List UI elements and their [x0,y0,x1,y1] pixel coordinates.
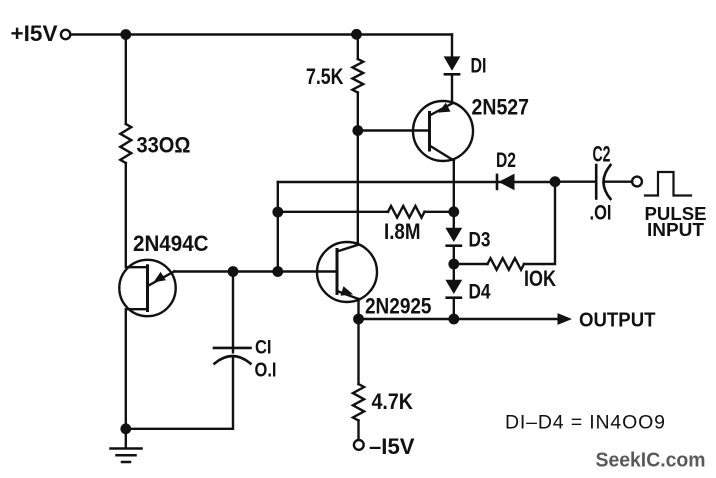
wire 2N527 emitter to D1 [451,76,453,103]
wire left vertical below 2N494C base1 [126,309,147,447]
capacitor C1 plates [214,347,251,350]
resistor 4.7K [353,384,364,421]
wire node B left vertical [277,182,279,272]
transistor 2N527 (PNP) body [413,101,473,161]
junction 7.5K / 2N527 base [352,125,363,136]
wire 4.7K to -15V terminal [357,421,359,441]
wire 10K left lead [454,263,488,265]
diode D2 triangle+bar (pointing left) [499,174,515,191]
resistor 330 ohm [120,124,131,163]
wire node A to D3 [453,212,455,228]
svg-text:C2: C2 [593,141,611,166]
transistor 2N494C (UJT) body [119,260,175,316]
wire bottom horizontal (ground run to C1) [126,357,233,429]
svg-text:CI: CI [255,338,272,359]
transistor 2N2925 base bar [336,250,339,294]
junction +15V rail / 330 ohm [120,29,131,40]
wire top +15V rail [71,33,453,35]
wire D3 to node C [453,247,455,264]
svg-text:4.7K: 4.7K [372,389,414,414]
svg-text:INPUT: INPUT [647,220,704,240]
svg-text:2N2925: 2N2925 [365,293,432,318]
ground [111,449,142,463]
terminal pulse input (open circle) [632,177,642,187]
wire left vertical upper (to 330 ohm) [125,35,127,125]
junction 2N2925 emitter / output line [353,314,364,325]
diode D1 triangle+bar [444,56,461,70]
wire 7.5K bottom / center column [357,93,359,245]
svg-text:DI: DI [471,54,487,78]
wire node C to D4 [453,264,455,280]
wire C2 to input terminal [605,180,633,182]
svg-text:33OΩ: 33OΩ [137,133,191,158]
arrowhead OUTPUT [558,313,573,325]
wire 2N2925 emitter down [357,299,359,384]
wire output line [359,318,558,320]
svg-text:.OI: .OI [590,202,612,225]
diode D1 (to top rail) wire [451,35,453,57]
wire 10K right lead + vertical to node B [524,182,555,264]
arrowhead 2N494C emitter (points to base bar) [154,272,166,282]
svg-text:D3: D3 [469,228,491,252]
junction D3 / D4 / 10K [448,259,459,270]
svg-text:IOK: IOK [524,266,556,291]
transistor 2N2925 (NPN) body [317,242,377,302]
node A: 2N527 collector / 1.8M / D3 [448,206,459,217]
wire left vertical to 2N494C base2 [126,163,147,267]
wire D4 to output line [453,299,455,319]
svg-text:I.8M: I.8M [384,219,421,244]
terminal +15V (open circle) [61,30,70,39]
junction 1.8M left end [272,207,283,218]
svg-text:OUTPUT: OUTPUT [579,310,656,332]
transistor 2N527 base bar [428,113,431,151]
svg-text:–I5V: –I5V [369,434,415,459]
svg-text:D4: D4 [469,280,491,304]
resistor 1.8M [388,206,425,218]
arrowhead 2N2925 emitter (NPN, points out) [341,286,354,296]
wire 2N527 collector down to node A [453,161,455,213]
transistor 2N494C base bar [146,266,149,311]
junction emitter node / C1 [228,266,239,277]
junction D4 / output line [448,314,459,325]
arrowhead 2N527 emitter (PNP, points in) [438,103,451,113]
svg-text:DI–D4 = IN4OO9: DI–D4 = IN4OO9 [505,412,665,434]
svg-text:D2: D2 [496,148,516,172]
transistor 2N527 emitter lead [430,104,453,116]
wire node B to C2 [555,180,595,182]
svg-text:2N527: 2N527 [472,94,530,119]
svg-text:SeekIC.com: SeekIC.com [596,450,706,472]
svg-text:O.I: O.I [255,360,277,382]
diode D4 triangle+bar [445,280,462,294]
wire emitter node horizontal (2N494C to 2N2925 base) [175,270,338,272]
transistor 2N527 collector lead [430,146,454,161]
diode D3 triangle+bar [445,228,462,242]
junction emitter node / cross-coupling branch [272,266,283,277]
transistor 2N494C emitter lead [149,271,175,285]
junction ground node [120,423,131,434]
junction +15V rail / 7.5K [351,29,362,40]
transistor 2N2925 emitter lead [337,291,359,299]
resistor 10K [488,258,525,270]
capacitor C2 plates [595,165,598,199]
svg-text:+I5V: +I5V [11,21,58,46]
wire 1.8M right lead [425,211,454,213]
wire 7.5K top lead [357,35,359,60]
svg-text:2N494C: 2N494C [133,231,209,256]
wire C1 top lead [232,272,234,353]
wire 2N527 base lead [358,129,430,131]
wire cross-coupling horizontal (node B) [278,181,555,183]
transistor 2N2925 collector lead [337,245,358,252]
svg-text:7.5K: 7.5K [306,64,344,89]
resistor 7.5K [352,59,363,93]
junction D2 / C2 / 10K branch [550,176,561,187]
pulse waveform symbol [645,172,691,196]
terminal -15V (open circle) [354,440,364,450]
wire 1.8M left lead [278,211,388,213]
